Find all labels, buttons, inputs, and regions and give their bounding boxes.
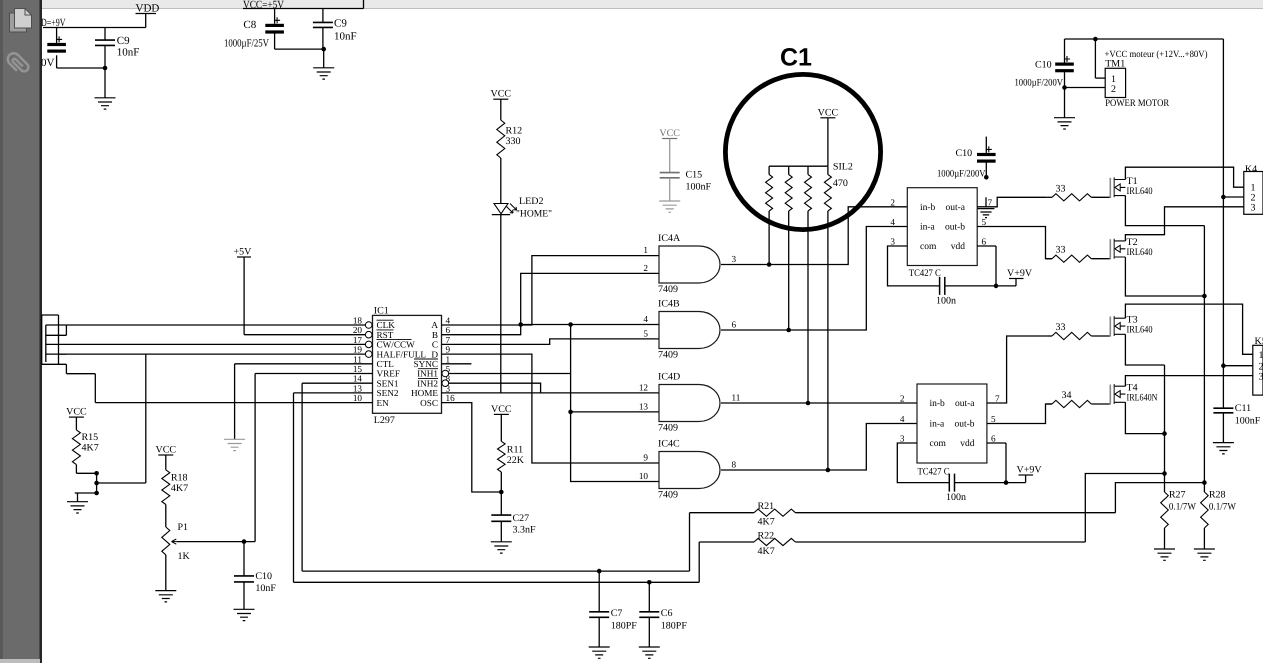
power flag VCC (R15) [69,416,84,418]
svg-text:IRL640: IRL640 [1127,325,1153,336]
svg-text:14: 14 [353,374,363,384]
ground (C7) [589,647,610,658]
VDD flag bar [136,13,157,15]
AND gate IC4D 7409 [659,385,720,422]
svg-text:22K: 22K [507,455,525,466]
wire to ground [104,68,106,98]
wire +VCC moteur rail [1065,38,1224,40]
svg-text:16: 16 [446,393,456,403]
ground (C10) [1054,118,1075,129]
wire SIL2 resistor 1 bottom lead [768,211,770,265]
power flag VCC (R18) [158,454,173,456]
stub + small ground at out-a [985,197,987,207]
svg-text:7409: 7409 [658,423,678,434]
resistor network SIL2 element 2 (470) [785,175,792,212]
svg-text:VCC: VCC [66,407,87,418]
wire C15 to ground [669,178,671,201]
junction C10 tap [242,539,247,544]
ground (C15, gray) [659,201,680,212]
wire R12 to LED2 [500,158,502,204]
wire A to IC4A in1 [442,256,659,325]
wire T3 drain to K5 pin1 [1125,304,1252,354]
svg-text:4K7: 4K7 [171,483,188,494]
wire VREF net [255,373,372,375]
wire TM1 pin1 [1094,39,1096,78]
svg-text:33: 33 [1056,322,1066,333]
svg-text:9: 9 [643,453,648,463]
ground (R15 node) [67,502,88,513]
svg-text:2: 2 [900,394,905,404]
svg-text:TC427 C: TC427 C [918,467,950,478]
svg-text:180PF: 180PF [661,621,688,632]
svg-text:IC1: IC1 [374,306,389,317]
svg-text:1: 1 [1259,350,1263,361]
resistor R15 4K7 [72,430,80,465]
svg-text:C10: C10 [956,148,973,159]
capacitor C7 plates [589,612,609,618]
svg-text:C8: C8 [243,19,256,31]
svg-text:100nF: 100nF [686,182,712,193]
svg-text:3: 3 [1251,202,1256,213]
svg-text:C15: C15 [686,170,703,181]
wire HOME row to IC4D in12 [442,392,659,394]
wire sense feedback to R27 [1085,474,1163,543]
wire C10 to ground [243,582,245,609]
wire com pin3 loop with 100n cap [897,443,949,483]
wire R11 bottom [500,472,502,492]
wire T1/T2 source vertical to R28 [1203,226,1205,483]
connector TM1 POWER MOTOR [1105,68,1125,97]
ground (top-left) [95,98,116,109]
transistor T4 IRL640N [1110,383,1157,405]
svg-text:6: 6 [732,320,737,330]
junction K4 pin2 [1221,195,1226,200]
svg-text:5: 5 [991,414,996,424]
wire TM1 pin2 [1065,87,1106,89]
svg-text:4K7: 4K7 [82,443,99,454]
svg-text:com: com [920,242,937,252]
svg-text:R28: R28 [1209,490,1226,501]
wire R28 to ground [1203,528,1205,549]
LED LED2 "HOME" [492,204,517,215]
svg-text:IRL640: IRL640 [1127,186,1153,197]
svg-text:V+9V: V+9V [1017,465,1043,476]
svg-text:R12: R12 [506,126,523,137]
svg-text:330: 330 [506,136,521,147]
ground (out-a stub) [978,209,995,218]
svg-text:R22: R22 [758,531,775,542]
svg-text:R15: R15 [82,432,99,443]
wire vertical in4-to-in10 [571,325,659,482]
svg-text:100nF: 100nF [1235,416,1261,427]
wire in4 row [521,324,659,326]
wire IC4C output to TC427-2 in-a [721,424,917,471]
svg-text:5: 5 [982,217,987,227]
wire T1 source [1125,196,1204,226]
svg-text:IC4C: IC4C [658,439,680,450]
svg-text:R21: R21 [758,501,775,512]
connector ladder at left edge [41,315,43,364]
resistor network SIL2 element 3 (470) [805,175,812,212]
wire IC4D output to TC427-2 in-b [721,402,917,404]
svg-text:VCC: VCC [491,89,512,100]
junction T2 source [1202,294,1207,299]
wire C8 bottom [274,31,276,49]
wire C9 drop [322,9,324,23]
junction ground stub [94,491,99,496]
wire out-a to 33 resistor (T1) [977,197,1046,207]
svg-text:10nF: 10nF [255,583,276,594]
svg-text:POWER MOTOR: POWER MOTOR [1105,98,1169,109]
svg-text:3: 3 [732,254,737,264]
junction SIL2-4 on gate output [826,468,831,473]
wire LED2 cathode to HOME row [500,215,502,393]
wire R15 bottom [75,465,77,474]
svg-text:CTL: CTL [377,359,395,369]
wire SIL2 common bar [769,165,828,167]
svg-text:19: 19 [353,345,363,355]
wire SYNC stub [442,363,472,365]
resistor R12 330 [497,120,505,158]
wire resistor to gate [1091,335,1110,337]
svg-text:out-a: out-a [955,399,975,409]
svg-text:2: 2 [1111,84,1116,95]
wire to ground [323,49,325,68]
wire SIL2 resistor 2 top lead [788,166,790,174]
resistor R28 0.1/7W [1201,492,1209,528]
wire sense feedback to R28 [1115,483,1204,513]
svg-text:4K7: 4K7 [758,546,775,557]
svg-text:C10: C10 [1035,60,1052,71]
capacitor C9 10nF (left) [95,40,115,45]
svg-text:OSC: OSC [420,398,438,408]
svg-text:4: 4 [900,414,905,424]
svg-text:13: 13 [353,383,363,393]
svg-text:1: 1 [446,354,451,364]
power flag VCC (R12) [493,98,508,100]
junction HALF/FULL [94,481,99,486]
svg-text:180PF: 180PF [611,621,638,632]
wire VCC to R12 [500,99,502,120]
wire C27 top lead [500,492,502,515]
wire out-a to 33 resistor (T3) [987,336,1046,403]
wire SEN2 net [294,392,373,394]
svg-text:3.3nF: 3.3nF [513,525,537,536]
svg-text:EN: EN [377,398,390,408]
capacitor C9 10nF [313,22,333,27]
svg-text:4: 4 [643,314,648,324]
svg-text:4K7: 4K7 [758,517,775,528]
wire IC4B output to TC427-1 in-a [721,227,907,331]
junction C10/TM1-2 [1062,85,1067,90]
wire out-b to 33 resistor (T2) [977,227,1052,259]
resistor R18 4K7 [162,470,170,505]
wire C10 lead [243,542,245,576]
svg-text:SEN2: SEN2 [377,388,399,398]
wire SIL2 resistor 4 bottom lead [827,211,829,470]
svg-text:HOME: HOME [411,388,438,398]
IC TC427 C (lower driver) [917,384,987,463]
wire B to IC4A in2 [442,273,659,334]
svg-text:V+9V: V+9V [1007,268,1033,279]
wire T3/T4 source vertical to R27 [1164,365,1166,492]
svg-text:3: 3 [1259,372,1263,383]
svg-text:17: 17 [353,335,363,345]
svg-text:INH2: INH2 [417,378,438,388]
capacitor C11 100nF [1213,408,1233,413]
svg-text:3: 3 [890,237,895,247]
svg-text:C27: C27 [513,513,530,524]
ground (C6) [639,647,660,658]
svg-text:VCC=+5V: VCC=+5V [243,0,284,11]
svg-text:A: A [431,320,438,330]
svg-text:6: 6 [982,237,987,247]
wire com pin3 loop with 100n cap [888,246,940,286]
svg-text:11: 11 [732,393,741,403]
svg-text:7409: 7409 [658,350,678,361]
svg-text:C: C [432,340,438,350]
wire cap bottom [56,55,58,68]
wire HALF/FULL net [59,353,366,355]
junction in4 row [518,322,523,327]
capacitor C8 1000uF/25V [265,24,284,27]
capacitor 100n (TC427-1) [940,277,945,295]
junction K5 pin2 [1221,363,1226,368]
IC1 inversion bubbles [365,322,372,329]
P1 wiper arrow [172,539,178,544]
svg-text:C10: C10 [255,571,272,582]
junction C8/C9 [321,47,326,52]
potentiometer P1 1K [162,527,170,555]
svg-text:12: 12 [639,382,649,392]
resistor 34 (gate) [1052,400,1091,407]
svg-text:L297: L297 [374,415,395,426]
wire resistor to gate [1091,403,1110,405]
junction vdd/100n [994,284,999,289]
svg-text:10: 10 [639,471,649,481]
svg-text:7: 7 [995,394,1000,404]
svg-text:C1: C1 [780,44,812,72]
svg-text:1: 1 [643,245,648,255]
svg-text:RST: RST [377,330,394,340]
power flag VCC (SIL2) [820,117,835,119]
junction TM1 feed [1093,37,1098,42]
IC TC427 C (upper driver) [907,188,977,266]
svg-text:10nF: 10nF [334,31,357,43]
AND gate IC4C 7409 [659,452,720,489]
ground (CTL, gray) [224,439,245,450]
resistor R22 4K7 [754,538,795,545]
wire C10#2 top lead [985,137,987,153]
svg-text:11: 11 [353,354,362,364]
wire vdd pin6 [977,245,996,247]
AND gate IC4A 7409 [659,246,720,283]
svg-text:3: 3 [900,434,905,444]
wire K4 pin2 [1223,196,1243,198]
svg-text:34: 34 [1062,390,1072,401]
wire node to HALF/FULL drop [97,482,146,484]
wire CW/CCW net [46,343,366,345]
svg-text:SEN1: SEN1 [377,378,399,388]
resistor network SIL2 element 4 (470) [824,175,831,212]
resistor network SIL2 element 1 (470) [766,175,773,212]
svg-text:1000µF/200V: 1000µF/200V [937,169,986,180]
svg-text:HALF/FULL: HALF/FULL [377,349,427,359]
junction T4 source [1162,431,1167,436]
wire C11 to ground [1222,413,1224,443]
ground (P1) [155,591,176,602]
svg-text:C9: C9 [117,35,130,47]
wire OSC to R11/C27 [442,403,502,492]
svg-text:IC4A: IC4A [658,233,681,244]
wire R27 to ground [1164,528,1166,549]
wire R15 node bus [96,473,98,493]
svg-text:C6: C6 [661,608,673,619]
wire out-b to 34 resistor (T4) [987,404,1052,424]
wire SEN1 net [302,382,372,384]
capacitor C6 plates [639,612,659,618]
svg-text:IC4B: IC4B [658,299,680,310]
ground (C11) [1213,443,1234,454]
capacitor C15 100nF [660,173,680,178]
svg-text:13: 13 [639,401,649,411]
wire rail down to C10 [1064,39,1066,63]
wire CTL to ground [235,363,373,365]
svg-text:10nF: 10nF [117,47,140,59]
svg-text:0.1/7W: 0.1/7W [1209,502,1237,513]
svg-text:33: 33 [1056,245,1066,256]
wire INH1 [449,373,571,375]
sidebar pages icon [10,9,32,33]
svg-text:1K: 1K [178,551,191,562]
svg-text:7409: 7409 [658,284,678,295]
junction SIL2-2 on gate output [786,328,791,333]
svg-text:4: 4 [890,217,895,227]
svg-text:out-b: out-b [954,420,974,430]
junction C10#2 bottom [984,175,989,180]
wire C10 bottom [1064,70,1066,88]
wire C to IC4B in5 [442,339,659,345]
svg-text:D: D [431,349,438,359]
capacitor C7 180PF [598,571,600,612]
wire SIL2 resistor 2 bottom lead [788,211,790,330]
junction SIL2-3 on gate output [806,401,811,406]
junction OSC node [499,490,504,495]
AND gate IC4B 7409 [659,312,720,349]
resistor R21 4K7 [690,512,755,514]
svg-text:15: 15 [353,364,363,374]
ground (C10) [234,609,255,620]
resistor R21 4K7 [754,509,795,516]
annotation circle C1 [725,74,880,229]
svg-text:18: 18 [353,316,363,326]
resistor R27 0.1/7W [1161,492,1169,528]
wire to ground [1064,88,1066,118]
svg-text:out-b: out-b [945,223,965,233]
wire VCC to C15 [669,139,671,173]
svg-text:IC4D: IC4D [658,372,680,383]
svg-text:IRL640N: IRL640N [1127,393,1158,404]
wire K4 pin3 to T2 drain [1125,207,1243,241]
junction V570 top [568,322,573,327]
svg-text:1000µF/200V: 1000µF/200V [1015,78,1064,89]
capacitor C10 10nF [234,576,254,582]
wire VCC to SIL2 [827,118,829,166]
svg-text:R18: R18 [171,473,188,484]
wire in13 row [571,411,659,413]
wire C9 drop [104,28,106,41]
svg-text:100n: 100n [946,492,966,503]
svg-text:4: 4 [446,316,451,326]
ground (R27) [1154,549,1175,560]
svg-text:0V: 0V [41,57,55,69]
svg-text:10: 10 [353,393,363,403]
wire bus1 (SEN1) [302,570,689,572]
wire SIL2 resistor 3 bottom lead [807,211,809,403]
wire T4 source [1125,402,1164,433]
capacitor C10 1000uF/200V (upper) [1055,63,1074,66]
svg-text:VCC: VCC [491,404,512,415]
wire T2 source [1125,257,1204,296]
wire P1 wiper to VREF [177,541,255,543]
svg-text:9: 9 [446,345,451,355]
svg-text:470: 470 [833,178,848,189]
junction in13 [568,410,573,415]
transistor T2 IRL640 [1110,237,1152,259]
svg-text:IRL640: IRL640 [1127,247,1153,258]
svg-text:2: 2 [890,197,895,207]
wire IC4A output to TC427-1 in-b [721,207,907,265]
wire C9 bottom [104,45,106,68]
junction R28 top [1202,480,1207,485]
sidebar paperclip icon [5,51,30,76]
ground (C27) [491,542,512,553]
wire vdd pin6 [987,442,1006,444]
svg-text:TC427 C: TC427 C [909,268,941,279]
junction vdd/100n (2) [1004,480,1009,485]
svg-text:VCC: VCC [659,128,680,139]
svg-text:7: 7 [446,335,451,345]
wire K5 pin3 to T4 drain [1125,376,1252,387]
wire node to ground [75,492,97,494]
capacitor C10 1000uF/200V (floating) [977,153,996,156]
svg-text:SIL2: SIL2 [833,162,853,173]
svg-text:0.1/7W: 0.1/7W [1169,502,1197,513]
svg-text:20: 20 [353,325,363,335]
junction C7 tap [597,569,602,574]
svg-text:in-a: in-a [920,223,936,233]
junction R27 top [1162,471,1167,476]
svg-text:vdd: vdd [951,242,966,252]
resistor 33 (gate) [1052,255,1091,262]
wire R15 top lead [75,424,77,430]
svg-text:6: 6 [991,434,996,444]
capacitor C27 3.3nF [491,515,511,521]
wire EN net [65,364,67,373]
svg-text:CLK: CLK [377,320,396,330]
wire K5 pin2 [1223,365,1252,367]
wire +9V rail [43,27,146,29]
wire cap drop [56,28,58,43]
capacitor electrolytic (top-left, label hidden) [47,43,66,46]
svg-text:C7: C7 [611,608,623,619]
svg-text:VREF: VREF [377,369,401,379]
wire CLK net [65,325,67,335]
power flag VCC (C15) [662,138,677,140]
viewer top gray band [40,0,1263,8]
wire bus2 up to R22 [698,542,700,582]
wire bus2 (SEN2) [294,581,700,583]
